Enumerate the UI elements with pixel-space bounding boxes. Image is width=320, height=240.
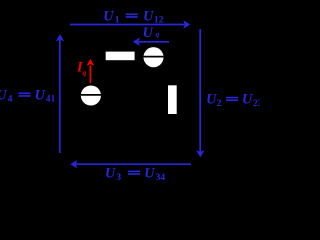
- label Iq: [76, 60, 87, 78]
- svg-text:U: U: [103, 8, 114, 24]
- svg-text:3: 3: [116, 172, 121, 183]
- svg-text:U: U: [242, 92, 253, 108]
- svg-text:U: U: [143, 25, 154, 41]
- label Uq: [143, 25, 160, 41]
- svg-text:q: q: [83, 68, 87, 77]
- svg-text:U: U: [144, 166, 155, 182]
- svg-text:4: 4: [8, 94, 13, 105]
- voltage arrow U3 (bottom, pointing left): [70, 160, 191, 168]
- svg-text:U: U: [0, 87, 7, 103]
- svg-text:1: 1: [115, 15, 120, 26]
- resistor (top branch): [106, 52, 135, 61]
- svg-text:41: 41: [46, 94, 56, 105]
- voltage arrow Uq (pointing left): [133, 38, 169, 46]
- voltage source Uq (circle with horizontal bar): [143, 47, 163, 67]
- svg-text:12: 12: [154, 15, 164, 26]
- resistor (right branch): [168, 85, 177, 114]
- svg-text:2: 2: [217, 98, 222, 109]
- svg-text:q: q: [156, 29, 160, 38]
- svg-text:U: U: [206, 92, 217, 108]
- svg-text:34: 34: [156, 172, 166, 183]
- label U2 = U23: [206, 92, 263, 109]
- current arrow Iq (pointing up): [87, 59, 95, 83]
- current source Iq (circle with horizontal bar): [81, 85, 101, 105]
- label U1 = U12: [103, 8, 164, 25]
- svg-text:23: 23: [253, 98, 260, 109]
- svg-text:U: U: [143, 8, 154, 24]
- label U4 = U41: [0, 87, 56, 104]
- voltage arrow U2 (right, pointing down): [196, 29, 204, 157]
- label U3 = U34: [105, 166, 165, 183]
- svg-text:U: U: [105, 166, 116, 182]
- voltage arrow U4 (left, pointing up): [56, 34, 64, 153]
- svg-text:U: U: [35, 87, 46, 103]
- voltage arrow U1 (top, pointing right): [70, 20, 190, 28]
